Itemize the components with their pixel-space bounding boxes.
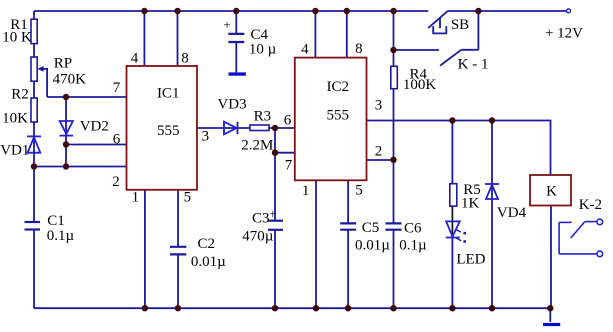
svg-text:IC2: IC2 xyxy=(327,79,350,95)
svg-text:LED: LED xyxy=(456,252,485,268)
svg-text:5: 5 xyxy=(355,183,363,199)
svg-text:8: 8 xyxy=(181,51,189,67)
svg-text:8: 8 xyxy=(355,41,363,57)
svg-text:4: 4 xyxy=(301,42,309,58)
svg-text:100K: 100K xyxy=(403,77,437,93)
svg-text:RP: RP xyxy=(54,56,72,72)
svg-text:VD2: VD2 xyxy=(80,119,109,135)
svg-text:C1: C1 xyxy=(47,213,65,229)
svg-text:VD3: VD3 xyxy=(217,97,246,113)
svg-text:4: 4 xyxy=(131,51,139,67)
svg-text:R3: R3 xyxy=(254,109,272,125)
svg-text:1: 1 xyxy=(302,183,310,199)
svg-text:7: 7 xyxy=(285,158,293,174)
svg-text:1: 1 xyxy=(132,190,140,206)
svg-text:C6: C6 xyxy=(404,221,422,237)
svg-text:10K: 10K xyxy=(2,111,28,127)
svg-text:10 K: 10 K xyxy=(2,30,32,46)
svg-text:+: + xyxy=(223,17,230,32)
svg-text:470K: 470K xyxy=(53,72,87,88)
svg-text:555: 555 xyxy=(327,108,350,124)
svg-text:0.01µ: 0.01µ xyxy=(191,254,226,270)
svg-text:6: 6 xyxy=(113,132,121,148)
svg-text:K-2: K-2 xyxy=(579,197,602,213)
svg-text:K - 1: K - 1 xyxy=(458,57,489,73)
svg-text:3: 3 xyxy=(202,129,210,145)
svg-text:0.1µ: 0.1µ xyxy=(47,228,75,244)
svg-text:5: 5 xyxy=(184,190,192,206)
svg-text:VD1: VD1 xyxy=(0,143,29,159)
svg-text:2.2M: 2.2M xyxy=(241,138,273,154)
svg-text:0.01µ: 0.01µ xyxy=(355,238,390,254)
svg-text:470µ: 470µ xyxy=(242,229,274,245)
svg-text:C2: C2 xyxy=(198,236,216,252)
svg-text:K: K xyxy=(546,184,557,200)
svg-text:6: 6 xyxy=(284,113,292,129)
svg-text:2: 2 xyxy=(112,174,120,190)
svg-text:0.1µ: 0.1µ xyxy=(399,238,427,254)
svg-text:10 µ: 10 µ xyxy=(249,42,277,58)
svg-text:+ 12V: + 12V xyxy=(545,26,583,42)
svg-text:555: 555 xyxy=(157,123,180,139)
svg-text:7: 7 xyxy=(113,80,121,96)
svg-text:1K: 1K xyxy=(461,196,480,212)
svg-text:VD4: VD4 xyxy=(497,205,527,221)
svg-text:+: + xyxy=(269,206,276,221)
svg-text:IC1: IC1 xyxy=(157,86,180,102)
svg-text:C5: C5 xyxy=(362,220,380,236)
svg-text:2: 2 xyxy=(375,144,383,160)
svg-text:3: 3 xyxy=(375,98,383,114)
svg-text:SB: SB xyxy=(451,17,469,33)
svg-text:C3: C3 xyxy=(252,211,270,227)
svg-text:R2: R2 xyxy=(11,87,29,103)
